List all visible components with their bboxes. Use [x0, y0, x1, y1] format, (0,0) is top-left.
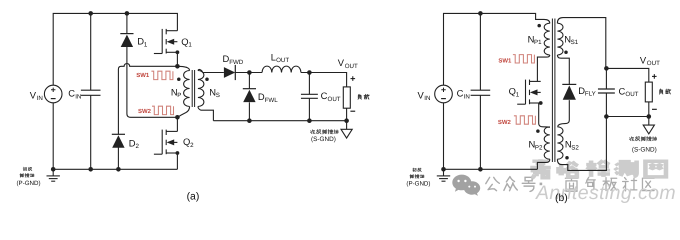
waveform SW2 (b) — [514, 116, 535, 124]
wire NS top to DFWD — [203, 72, 224, 74]
voltage source VIN (a) — [44, 85, 62, 103]
node VIN- gnd (b) — [441, 167, 446, 172]
node D2 gnd — [116, 167, 121, 172]
diode DFLY — [562, 83, 576, 85]
phase dot NP2 — [536, 129, 540, 133]
svg-text:SW1: SW1 — [136, 72, 150, 79]
transistor Q1 (a) — [154, 29, 178, 54]
svg-text:P1: P1 — [534, 39, 542, 46]
ground S-GND symbol (a) — [346, 121, 348, 130]
wire DFWD to LOUT — [235, 72, 262, 74]
wire NS1 bottom to DFLY cathode — [557, 55, 569, 84]
svg-text:(S-GND): (S-GND) — [632, 146, 657, 153]
svg-text:2: 2 — [136, 143, 140, 150]
inductor LOUT — [262, 66, 301, 72]
svg-text:OUT: OUT — [647, 60, 660, 67]
svg-text:S1: S1 — [571, 39, 579, 46]
node load bottom (a) — [344, 118, 349, 123]
wire load bottom (b) — [648, 102, 650, 117]
phase dot NP — [177, 77, 181, 81]
transformer core (b) — [552, 19, 555, 163]
label 次级侧接地 (a) — [311, 130, 316, 134]
wire NS1 top to VOUT node — [557, 18, 605, 69]
watermark text 面包板社区 — [565, 178, 577, 191]
label 次级侧接地 (b) — [630, 137, 635, 141]
svg-text:SW2: SW2 — [138, 108, 152, 115]
node VOUT (b) — [604, 66, 609, 71]
wire DFWL cathode up — [248, 73, 250, 89]
svg-text:IN: IN — [75, 93, 81, 100]
watermark big text 嘉峪检测网 — [530, 159, 666, 178]
load resistor (b) — [645, 82, 652, 102]
svg-text:(S-GND): (S-GND) — [311, 136, 336, 143]
wire VOUT rail to load (b) — [606, 68, 648, 82]
wire D2 anode to gnd rail — [117, 147, 119, 169]
diode D2 — [112, 133, 125, 135]
wire top rail (a): VIN+ to Q1 drain — [53, 13, 177, 85]
svg-text:1: 1 — [144, 41, 148, 48]
voltage source VIN (b) — [435, 85, 453, 103]
svg-text:OUT: OUT — [328, 96, 341, 103]
watermark text 公众号 — [486, 177, 500, 190]
wire top rail (b): VIN+ to NP1 top — [444, 13, 550, 85]
wire primary bottom curve — [177, 107, 189, 118]
wire Q1 source down to SW1 node — [176, 52, 178, 66]
wire NP1 bottom to Q1 drain — [537, 55, 549, 81]
wire DFWL anode down — [248, 102, 250, 120]
capacitor COUT (a) — [301, 94, 318, 98]
wire output gnd rail (b) — [606, 116, 648, 118]
winding NS2 — [557, 127, 563, 159]
wire load bottom — [346, 108, 348, 121]
wire COUT branch — [308, 73, 310, 121]
wire SW1 node left with hop over D1 wire, down to D2 cathode — [118, 64, 177, 135]
phase dot NP1 — [537, 24, 541, 28]
svg-text:S: S — [216, 92, 220, 99]
diode D1 — [120, 33, 133, 35]
waveform SW1 (b) — [513, 55, 534, 63]
winding NP — [184, 71, 190, 107]
load resistor (a) — [343, 87, 350, 108]
wire into primary top — [177, 66, 186, 67]
node SW1 (a) — [175, 64, 180, 69]
wire P-GND rail (a) — [53, 168, 177, 170]
node CIN gnd — [88, 167, 93, 172]
label 侧接地 (a) — [20, 174, 23, 178]
wire NS2 bottom to output gnd — [557, 117, 606, 171]
svg-text:C: C — [457, 88, 464, 99]
watermark wechat icon — [452, 175, 480, 196]
wire SW2 node to Q2 drain — [176, 117, 178, 131]
wire P-GND rail (b) — [444, 168, 538, 170]
svg-text:P: P — [177, 92, 181, 99]
svg-text:OUT: OUT — [276, 57, 289, 64]
phase dot NS2 — [565, 156, 569, 160]
svg-text:(a): (a) — [187, 191, 200, 202]
wire NP2 bottom to gnd rail — [537, 159, 549, 169]
ground P-GND symbol (b) — [437, 169, 450, 181]
svg-text:(b): (b) — [555, 193, 568, 204]
svg-text:IN: IN — [37, 95, 43, 102]
wire Q1 source to NP2 top — [539, 103, 550, 128]
phase dot NS — [205, 77, 209, 81]
svg-text:IN: IN — [464, 93, 470, 100]
wire VIN- down (b) — [443, 103, 445, 170]
svg-text:OUT: OUT — [625, 91, 638, 98]
diode DFWL — [243, 88, 256, 90]
wire Q2 source to gnd rail — [176, 153, 178, 170]
label 负载 (a) — [358, 94, 361, 99]
wire DFLY anode to NS2 top — [558, 100, 570, 126]
label 侧接地 (b) — [410, 175, 413, 179]
waveform SW2 (a) — [152, 106, 174, 114]
wire VIN- down to P-GND rail — [52, 103, 54, 170]
svg-text:1: 1 — [516, 91, 520, 98]
node D1 top — [125, 11, 130, 16]
node COUT bottom (a) — [307, 118, 312, 123]
label 初级 (b) — [413, 168, 417, 172]
wire secondary bottom to output gnd — [198, 107, 214, 121]
winding NP1 — [544, 23, 550, 55]
diode DFWD — [224, 67, 235, 78]
wire D1 cathode to top rail — [126, 13, 128, 33]
node VIN- gnd — [51, 167, 56, 172]
svg-text:P2: P2 — [535, 144, 543, 151]
capacitor CIN (a) — [81, 90, 101, 95]
capacitor COUT (b) — [598, 89, 615, 93]
label 初级 (a) — [23, 167, 27, 171]
winding NP2 — [544, 127, 550, 159]
svg-text:2: 2 — [190, 142, 194, 149]
svg-text:C: C — [68, 88, 75, 99]
wire D1 anode down to SW2 node — [127, 47, 177, 117]
node CIN top (b) — [478, 11, 483, 16]
svg-text:SW2: SW2 — [498, 119, 512, 126]
transformer core (a) — [192, 70, 194, 107]
node CIN gnd (b) — [478, 167, 483, 172]
svg-text:(P-GND): (P-GND) — [17, 180, 41, 187]
node CIN top (a) — [88, 11, 93, 16]
wire primary top curve — [186, 67, 190, 70]
wire LOUT to VOUT/load — [301, 73, 347, 87]
node DFWD cathode — [247, 70, 252, 75]
capacitor CIN (b) — [471, 90, 491, 95]
wire output gnd rail (a) — [213, 120, 346, 122]
node load bottom (b) — [647, 114, 652, 119]
node SW2 (a) — [175, 115, 180, 120]
ground P-GND symbol (a) — [47, 169, 60, 181]
svg-text:FWD: FWD — [229, 59, 244, 66]
waveform SW1 (a) — [151, 71, 173, 79]
wire COUT branch (b) — [605, 68, 607, 116]
svg-text:SW1: SW1 — [498, 57, 512, 64]
phase dot NS1 — [564, 50, 568, 54]
node COUT bottom (b) — [604, 114, 609, 119]
wire CIN branch — [90, 13, 92, 169]
wire secondary top curve — [198, 69, 203, 72]
label 负载 (b) — [659, 89, 662, 94]
transistor Q2 (a) — [154, 130, 178, 155]
svg-text:FLY: FLY — [585, 91, 596, 98]
svg-text:1: 1 — [188, 42, 192, 49]
node COUT top (a) — [307, 70, 312, 75]
ground S-GND symbol (b) — [648, 117, 650, 126]
winding NS — [198, 71, 204, 107]
transistor Q1 (b) — [517, 80, 541, 105]
svg-text:IN: IN — [424, 95, 430, 102]
svg-text:(P-GND): (P-GND) — [406, 180, 430, 187]
svg-text:OUT: OUT — [345, 63, 358, 70]
wire CIN branch (b) — [479, 13, 481, 169]
svg-text:S2: S2 — [571, 144, 579, 151]
winding NS1 — [557, 23, 563, 55]
node DFWL anode — [247, 118, 252, 123]
svg-text:FWL: FWL — [265, 97, 279, 104]
